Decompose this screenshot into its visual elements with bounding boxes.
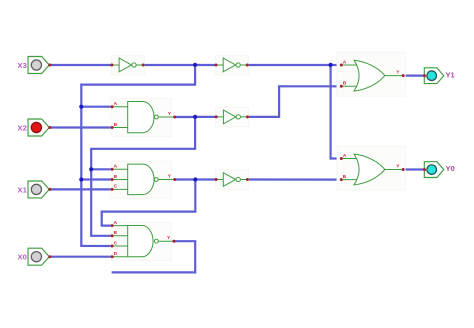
nand gate NAND2 (3-input)	[111, 161, 177, 198]
inverter NOT4	[215, 170, 249, 190]
junction J2	[329, 63, 333, 67]
svg-text:Y1: Y1	[445, 70, 455, 79]
svg-text:D: D	[114, 251, 118, 257]
svg-text:B: B	[343, 81, 347, 87]
svg-text:B: B	[114, 230, 118, 236]
wire NOT2 output to junction J2	[247, 64, 330, 66]
junction rail-NAND1A	[79, 105, 83, 109]
junction J3	[193, 115, 197, 119]
wire junction J4 to NOT4 input	[195, 178, 216, 180]
svg-text:B: B	[114, 122, 118, 128]
or gate OR1	[337, 52, 405, 96]
inverter NOT1	[110, 55, 144, 75]
wire junction J2 to OR1 input A	[331, 64, 342, 66]
wire junction J3 to NOT3 input	[195, 116, 216, 118]
svg-text:X3: X3	[18, 61, 27, 70]
junction J1	[193, 63, 197, 67]
svg-text:B: B	[343, 174, 347, 180]
svg-text:X1: X1	[18, 185, 28, 194]
or gate OR2	[337, 146, 405, 190]
wire NAND3 output dangling stub	[112, 241, 196, 272]
svg-text:A: A	[343, 153, 347, 159]
nand gate NAND1 (2-input)	[111, 99, 177, 137]
svg-text:X2: X2	[18, 123, 27, 132]
svg-text:C: C	[114, 240, 118, 246]
wire NOT3 output to OR1 input B	[248, 86, 342, 117]
inverter NOT2	[215, 55, 249, 75]
svg-text:A: A	[114, 164, 118, 170]
wire junction J1 to NOT2 input	[195, 64, 216, 66]
junction rail-NAND2A	[89, 167, 93, 171]
svg-text:B: B	[114, 174, 118, 180]
wire J3 down-left rail to NAND3 input B	[91, 117, 195, 236]
nand gate NAND3 (4-input)	[111, 220, 176, 261]
wire J1 down-left rail to NAND3 input C	[81, 65, 195, 246]
wire NAND2 output to junction J4	[175, 178, 196, 180]
output pin Y0	[423, 162, 455, 178]
svg-text:X0: X0	[18, 253, 27, 262]
wire branch rail to NAND1 input A	[81, 106, 112, 108]
svg-text:C: C	[114, 184, 118, 190]
wire branch rail to NAND2 input B	[81, 178, 112, 180]
wire OR2 output to pin Y0	[403, 168, 424, 170]
output pin Y1	[423, 68, 456, 84]
wire X2 to NAND1 input B	[50, 126, 112, 128]
junction J4	[193, 177, 197, 181]
input pin X0	[18, 248, 52, 265]
wire X1 to NAND2 input C	[50, 188, 112, 190]
wire branch rail to NAND2 input A	[91, 168, 112, 170]
wire X0 to NAND3 input D	[50, 256, 112, 258]
input pin X1	[18, 181, 52, 198]
svg-text:Y0: Y0	[445, 164, 454, 173]
svg-text:A: A	[114, 101, 118, 107]
junction rail-NAND2B	[79, 177, 83, 181]
wire NAND1 output to junction J3	[175, 116, 195, 118]
wire X3 to NOT1 input	[50, 64, 112, 66]
input pin X3	[18, 57, 52, 74]
wire OR1 output to pin Y1	[403, 74, 424, 76]
wire NOT1 output to junction J1	[143, 64, 195, 66]
svg-text:A: A	[114, 220, 118, 226]
wire junction J2 down to OR2 input A	[331, 65, 342, 159]
wire NOT4 output to OR2 input B	[248, 178, 342, 180]
svg-text:A: A	[343, 59, 347, 65]
input pin X2 (value 1, red)	[18, 119, 52, 136]
inverter NOT3	[215, 107, 249, 127]
wire J4 down-left rail to NAND3 input A	[102, 180, 196, 226]
